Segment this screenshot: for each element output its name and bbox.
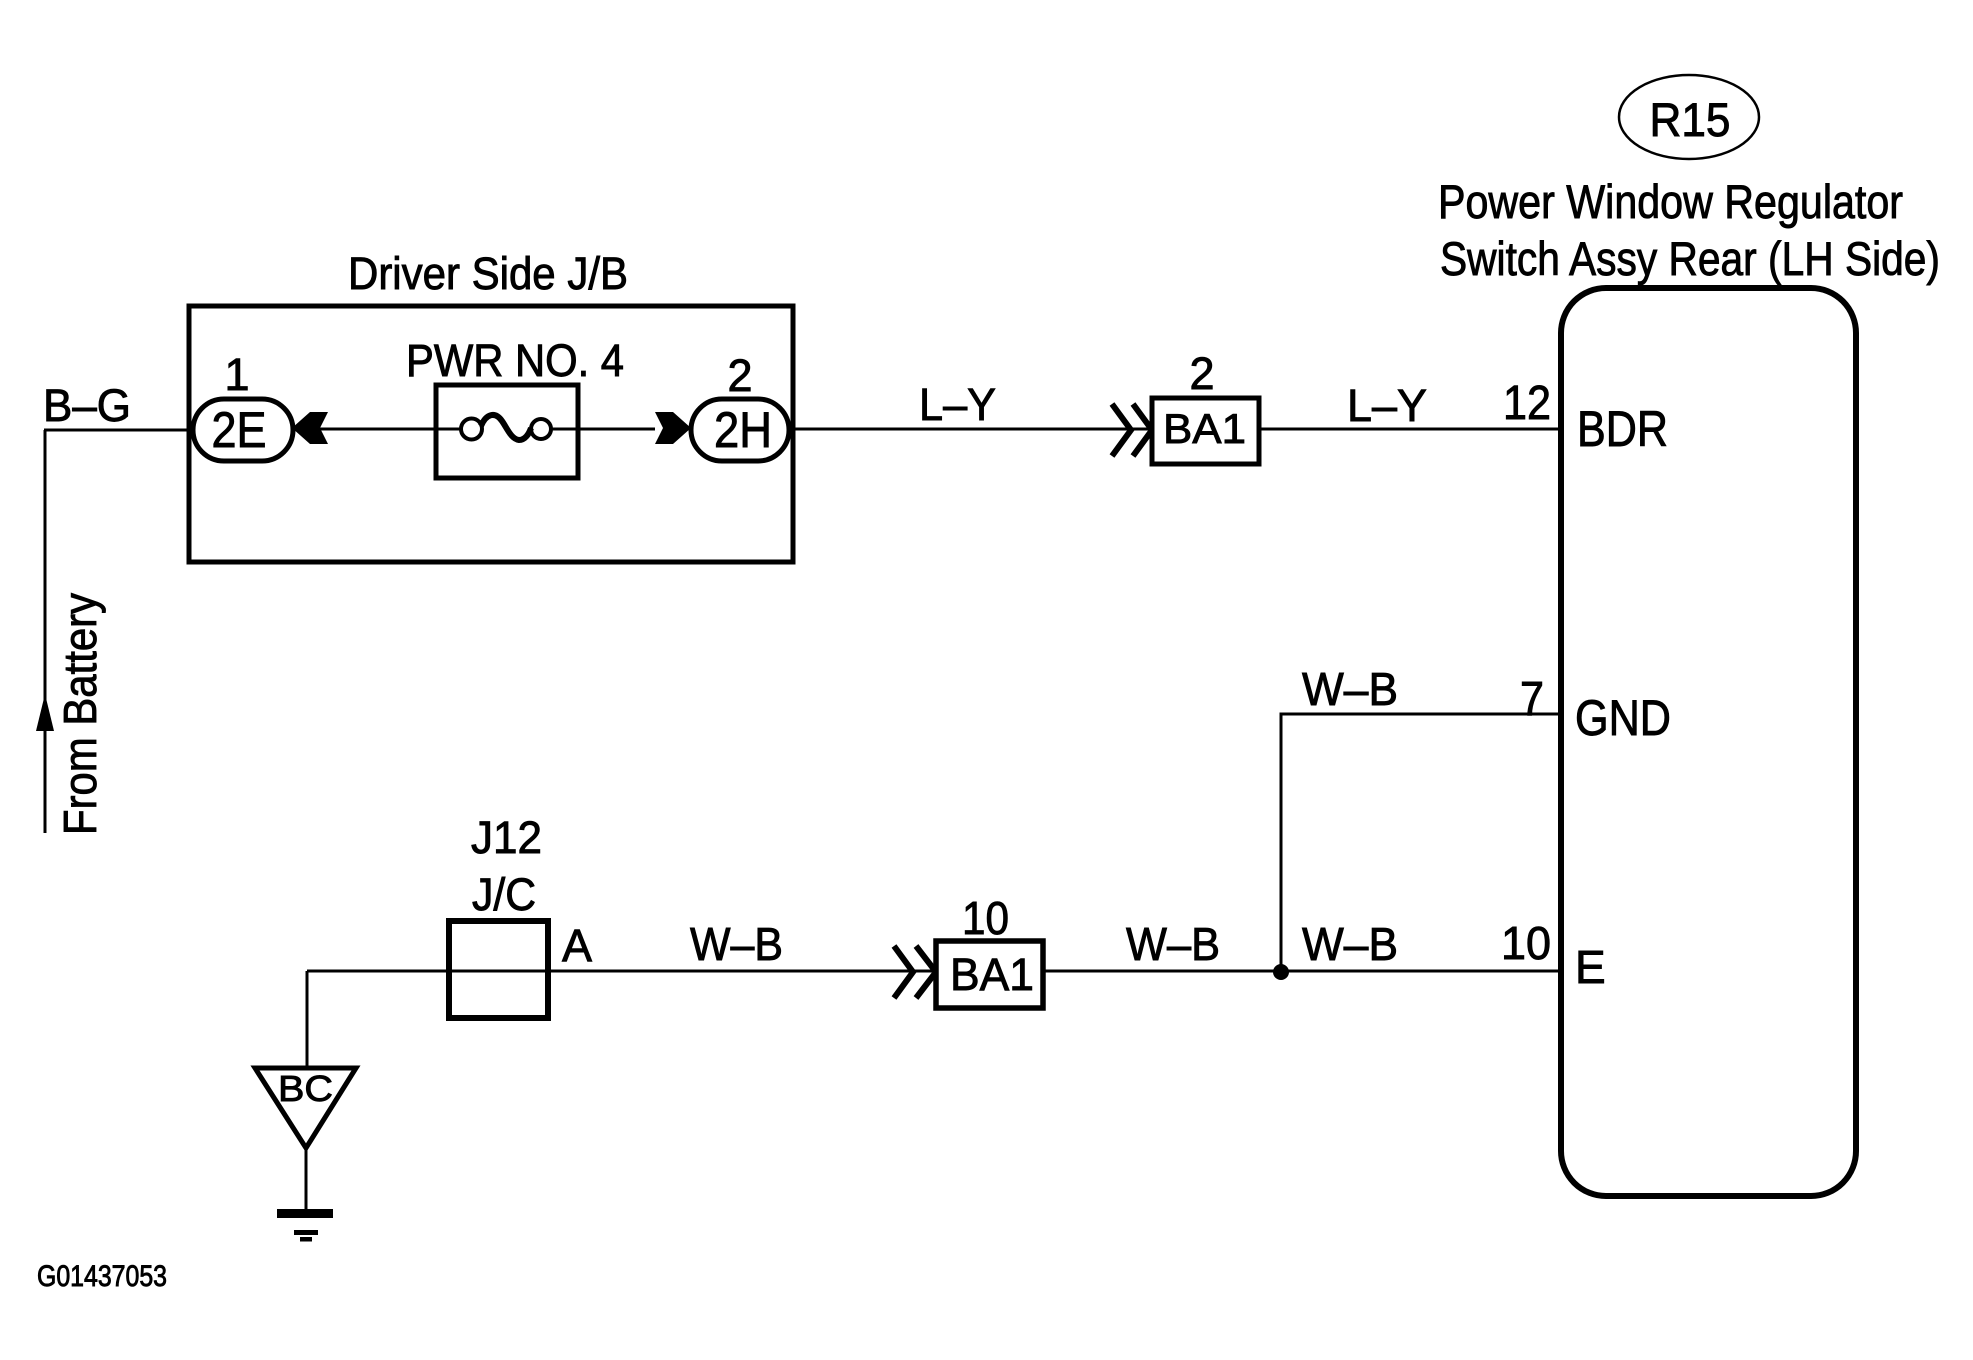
- from-battery arrowhead: [36, 694, 54, 731]
- connector id ellipse R15: [1619, 75, 1759, 159]
- svg-text:BA1: BA1: [1163, 405, 1246, 452]
- ground run wire right: [1043, 970, 1562, 973]
- svg-text:12: 12: [1503, 377, 1551, 430]
- svg-text:L–Y: L–Y: [919, 379, 996, 430]
- ground id triangle BC: [255, 1068, 356, 1148]
- fuse PWR NO. 4: [436, 385, 578, 478]
- svg-text:W–B: W–B: [1302, 663, 1398, 715]
- svg-text:2H: 2H: [714, 402, 772, 458]
- svg-text:L–Y: L–Y: [1347, 380, 1427, 431]
- wire B-G horizontal: [44, 429, 195, 432]
- wire W-B branch to GND: [1281, 714, 1562, 972]
- svg-text:R15: R15: [1650, 93, 1731, 146]
- svg-text:W–B: W–B: [1302, 918, 1398, 970]
- svg-text:2: 2: [727, 350, 752, 401]
- svg-text:BDR: BDR: [1577, 401, 1668, 457]
- svg-text:W–B: W–B: [690, 918, 783, 970]
- svg-text:2: 2: [1189, 348, 1214, 399]
- wire from battery vertical: [44, 430, 47, 833]
- wire L-Y 2H to BA1: [789, 428, 1152, 431]
- svg-text:7: 7: [1520, 673, 1544, 726]
- connector 2E: [193, 399, 293, 461]
- svg-text:Switch Assy Rear (LH Side): Switch Assy Rear (LH Side): [1440, 232, 1940, 285]
- wire L-Y BA1 to pin 12: [1259, 428, 1562, 431]
- svg-text:10: 10: [962, 892, 1009, 944]
- connector BA1 top: [1152, 398, 1259, 464]
- connector R15 body: [1561, 288, 1856, 1196]
- svg-text:W–B: W–B: [1126, 918, 1220, 970]
- wire down to BC: [306, 971, 309, 1069]
- svg-text:BC: BC: [278, 1068, 333, 1109]
- svg-text:Driver Side J/B: Driver Side J/B: [348, 248, 628, 299]
- connector 2H: [691, 399, 789, 461]
- junction connector J12 J/C: [449, 921, 548, 1018]
- wire fuse to 2H: [578, 428, 655, 431]
- ground run wire left: [307, 970, 936, 973]
- connector BA1 bottom: [936, 941, 1043, 1008]
- svg-text:10: 10: [1501, 917, 1551, 969]
- svg-text:B–G: B–G: [43, 380, 131, 431]
- arrow into 2H: [655, 412, 691, 444]
- splice chevrons top: [1112, 404, 1152, 456]
- svg-text:From Battery: From Battery: [54, 593, 106, 835]
- junction block Driver Side J/B: [189, 306, 793, 562]
- svg-text:E: E: [1575, 941, 1606, 993]
- svg-text:BA1: BA1: [950, 949, 1034, 1000]
- svg-text:Power Window Regulator: Power Window Regulator: [1438, 175, 1903, 228]
- splice chevrons bottom: [894, 946, 936, 998]
- arrow into 2E: [292, 412, 328, 444]
- wire BC to earth: [305, 1148, 308, 1211]
- svg-text:GND: GND: [1575, 690, 1671, 746]
- svg-text:PWR NO. 4: PWR NO. 4: [406, 335, 624, 386]
- svg-text:G01437053: G01437053: [37, 1260, 167, 1293]
- earth ground symbol: [277, 1209, 333, 1242]
- svg-text:1: 1: [224, 349, 249, 400]
- svg-text:2E: 2E: [212, 402, 267, 458]
- svg-text:J/C: J/C: [472, 869, 536, 920]
- junction dot: [1273, 964, 1289, 980]
- svg-text:A: A: [562, 920, 592, 971]
- wire 2E to fuse: [293, 428, 436, 431]
- svg-text:J12: J12: [471, 812, 542, 863]
